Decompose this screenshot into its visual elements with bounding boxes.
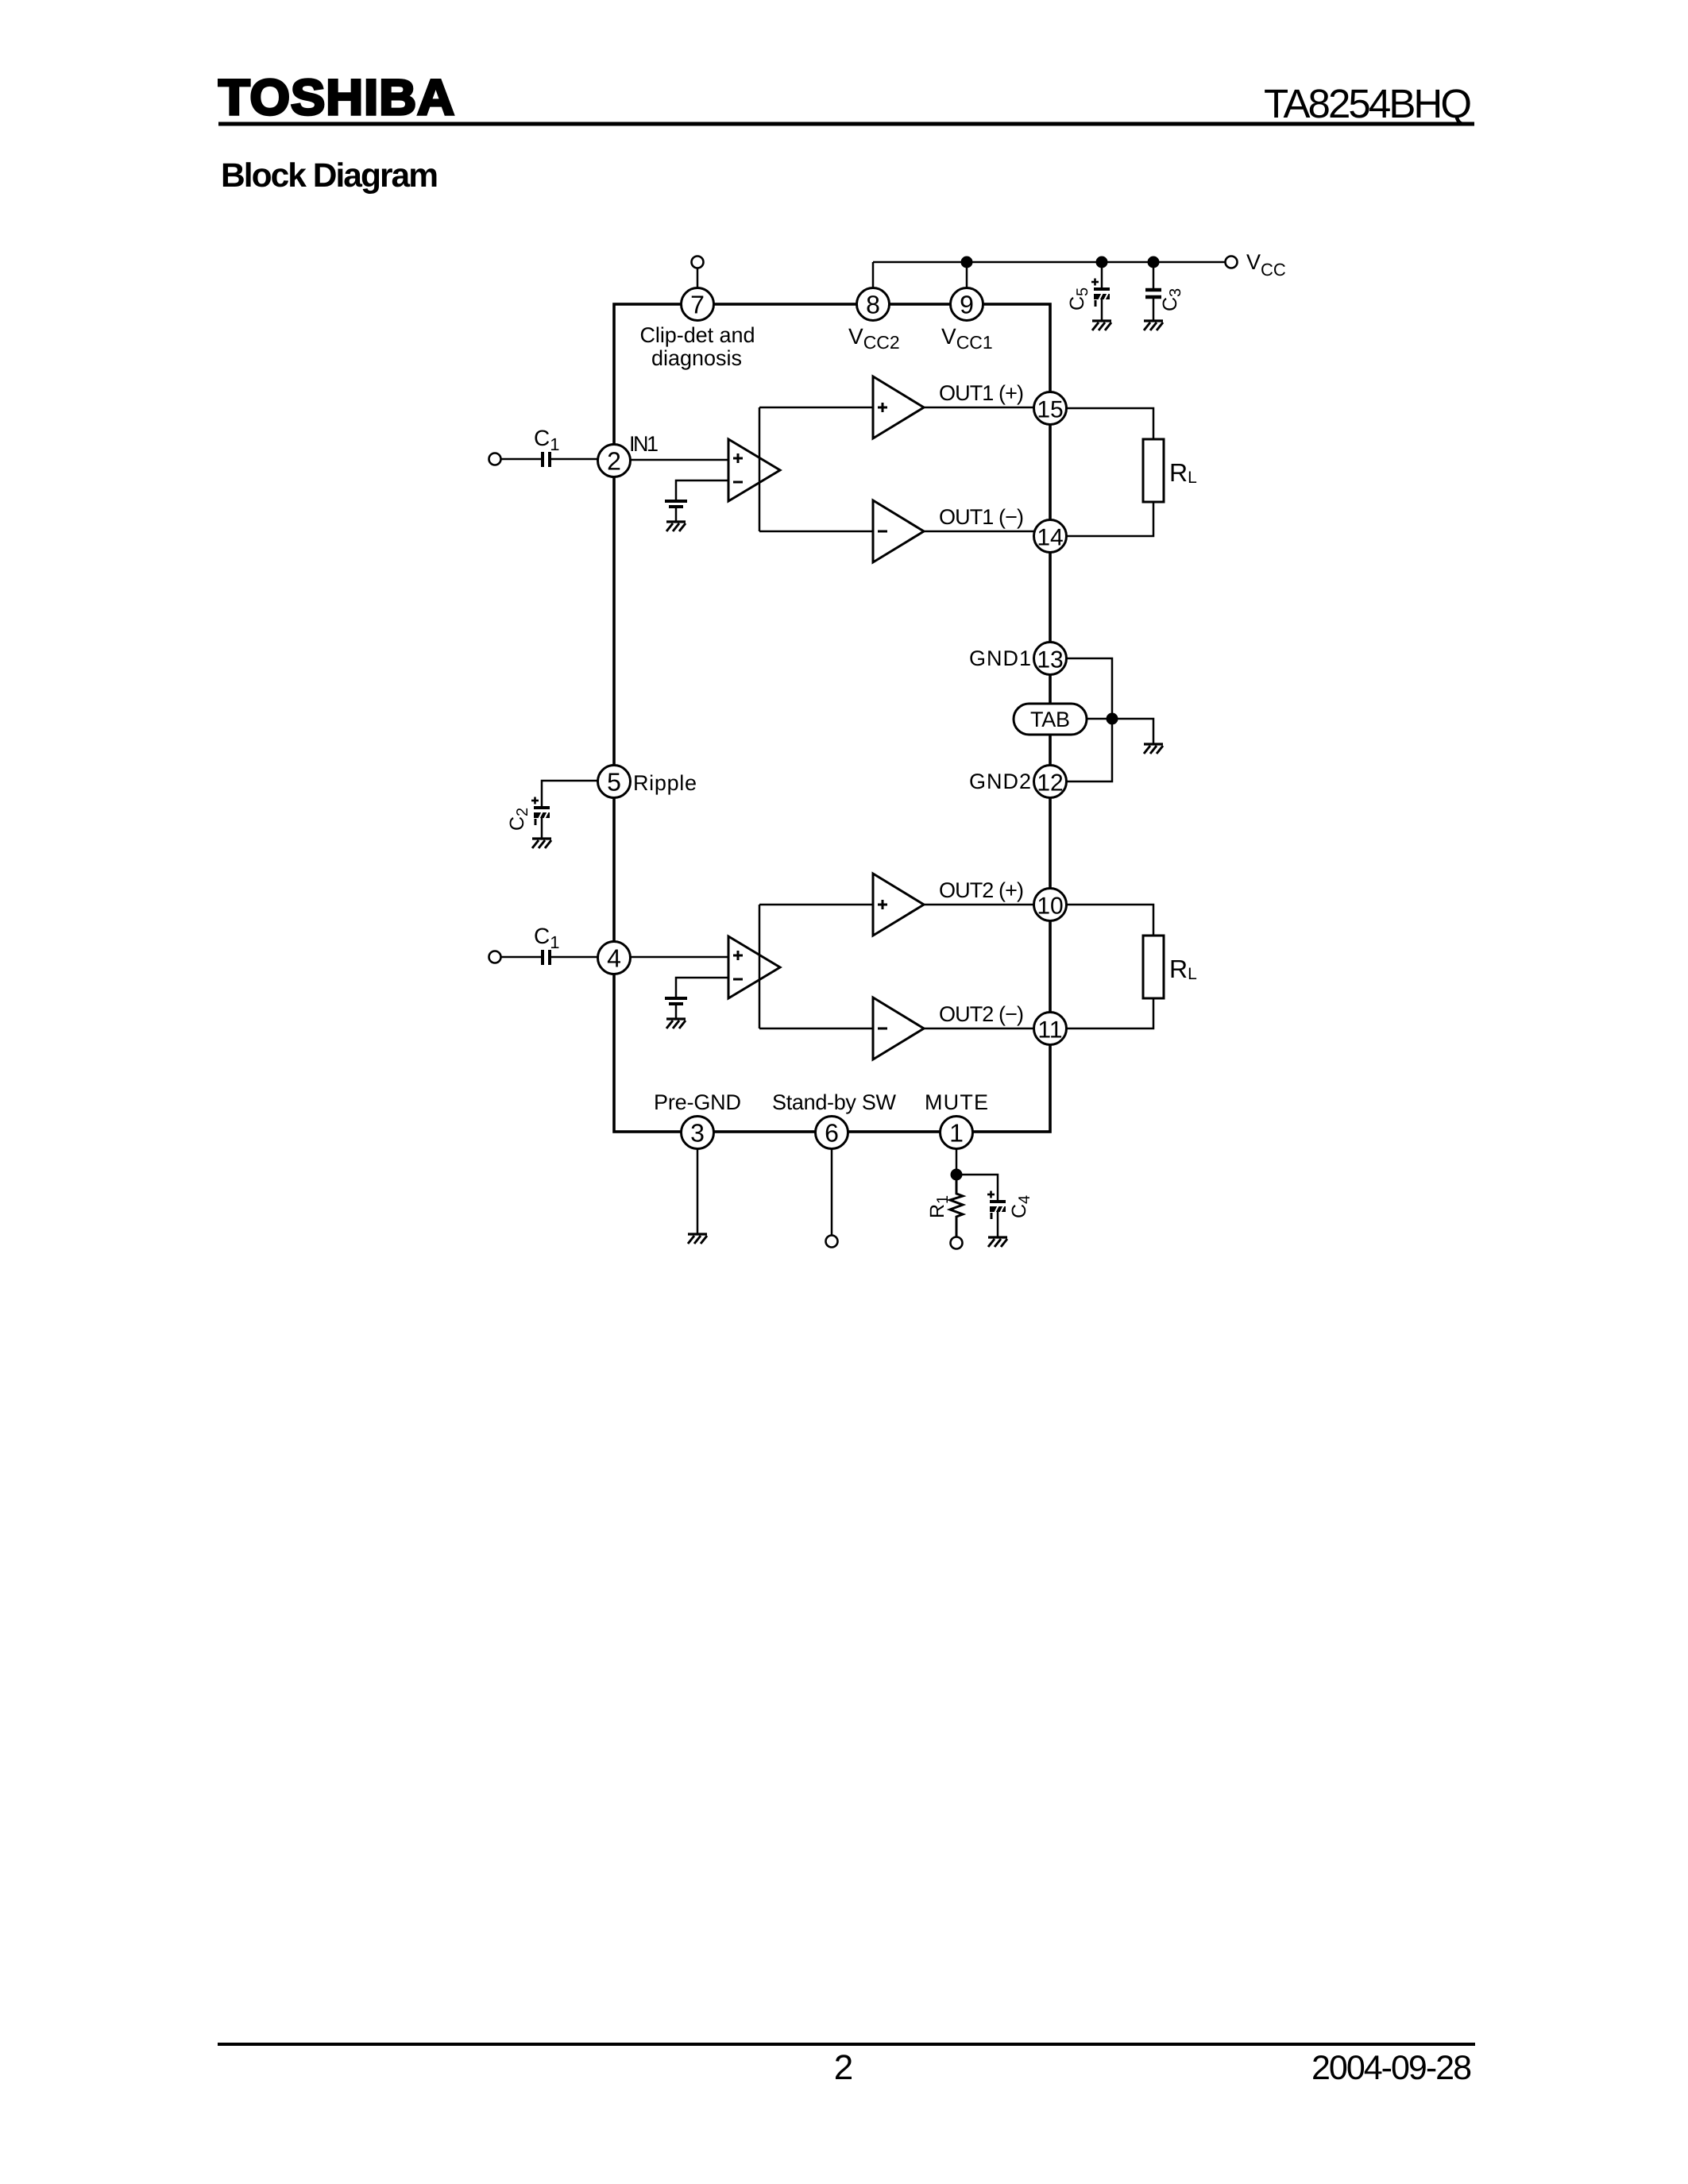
svg-text:GND1: GND1 (969, 646, 1031, 670)
ground (TAB) (1144, 744, 1163, 754)
capacitor C4 (polarized) (987, 1191, 1006, 1220)
pin 11 (OUT2-) (1034, 1013, 1067, 1045)
wire buffer2+ to pin10 (924, 904, 1034, 906)
wire C5 to ground (1101, 299, 1103, 321)
svg-text:OUT1 (−): OUT1 (−) (939, 505, 1024, 529)
wire input2 to C1 (500, 956, 541, 959)
terminal IN1 input (489, 453, 501, 465)
resistor RL (ch1) (1143, 439, 1164, 502)
wire C4 to ground (997, 1212, 999, 1237)
wire op-amp1 minus input (676, 480, 728, 500)
pin 14 (OUT1-) (1034, 520, 1067, 553)
power amp (OUT1 −) (873, 500, 924, 562)
TAB pad (1014, 704, 1087, 735)
svg-text:11: 11 (1037, 1017, 1062, 1044)
wire buffer1+ to pin15 (924, 407, 1034, 409)
svg-text:Clip-det and: Clip-det and (640, 323, 755, 347)
svg-text:TAB: TAB (1030, 708, 1070, 731)
junction MUTE node (951, 1169, 963, 1181)
resistor R1 (950, 1175, 963, 1237)
wire TAB to ground (1087, 719, 1153, 744)
ground (C4) (988, 1237, 1007, 1247)
svg-text:Ripple: Ripple (633, 771, 697, 795)
pin 9 (VCC1) (951, 288, 983, 321)
svg-text:7: 7 (690, 291, 705, 319)
wire op-amp2 minus input (676, 978, 728, 997)
wire input1 to C1 (500, 458, 541, 461)
svg-text:GND2: GND2 (969, 770, 1031, 793)
wire Vcc rail (873, 261, 1226, 264)
wire NF cap1 to ground (675, 508, 678, 522)
wire A1 output node (759, 407, 761, 531)
svg-text:3: 3 (690, 1119, 705, 1148)
capacitor (A1 NF) (665, 501, 687, 507)
ground (C2) (532, 839, 551, 848)
wire buffer2- to pin11 (924, 1028, 1034, 1030)
footer rule (218, 2043, 1475, 2046)
wire pin9 stub (966, 262, 968, 293)
wire to buffer1+ (759, 407, 873, 409)
svg-text:12: 12 (1037, 770, 1063, 797)
svg-text:OUT1 (+): OUT1 (+) (939, 381, 1024, 405)
svg-text:5: 5 (607, 768, 621, 797)
terminal VCC (1226, 257, 1238, 268)
wire pin4 to op-amp2 + (631, 956, 729, 959)
wire C2 to ground (541, 818, 543, 839)
capacitor (A2 NF) (665, 998, 687, 1004)
junction rail-pin9 (961, 257, 973, 268)
ground (A1 NF) (666, 522, 686, 531)
op-amp A1 (ch1 input amp) (728, 439, 780, 501)
terminal clip-det (692, 257, 704, 268)
svg-text:13: 13 (1037, 647, 1063, 673)
svg-text:1: 1 (949, 1119, 964, 1148)
svg-text:TA8254BHQ: TA8254BHQ (1264, 81, 1472, 126)
ground (Pre-GND) (688, 1234, 707, 1244)
wire C1 to pin4 (551, 956, 598, 959)
svg-text:15: 15 (1037, 397, 1063, 423)
wire pin15 to RL1 (1067, 408, 1154, 439)
wire C3 to ground (1153, 297, 1155, 321)
capacitor C1 (ch2, series) (543, 950, 550, 965)
svg-text:OUT2 (+): OUT2 (+) (939, 878, 1024, 902)
wire RL1 to pin14 (1067, 502, 1154, 536)
terminal MUTE ref (951, 1237, 963, 1249)
junction rail-C3 (1148, 257, 1160, 268)
junction rail-C5 (1096, 257, 1108, 268)
pin 2 (IN1) (598, 445, 631, 477)
header rule (218, 122, 1474, 126)
svg-text:MUTE: MUTE (925, 1090, 988, 1114)
svg-text:Stand-by SW: Stand-by SW (772, 1090, 897, 1114)
power amp (OUT2 −) (873, 997, 924, 1059)
wire C5 stub (1101, 262, 1103, 289)
wire pin8 stub to Vcc rail (872, 262, 875, 293)
junction TAB-gnd (1107, 713, 1118, 725)
wire pin5 to C2 (542, 781, 598, 808)
power amp (OUT2 +) (873, 874, 924, 936)
wire pin7 stub (697, 268, 699, 293)
pin 12 (GND2) (1034, 766, 1067, 798)
wire pin2 to op-amp1 + (631, 459, 729, 461)
ground (A2 NF) (666, 1019, 686, 1028)
capacitor C3 (1145, 290, 1161, 297)
svg-text:OUT2 (−): OUT2 (−) (939, 1002, 1024, 1026)
svg-text:8: 8 (866, 291, 880, 319)
terminal IN2 input (489, 951, 501, 963)
capacitor C1 (ch1, series) (543, 452, 550, 467)
svg-text:2004-09-28: 2004-09-28 (1311, 2049, 1472, 2087)
svg-text:TOSHIBA: TOSHIBA (218, 70, 455, 125)
svg-text:14: 14 (1037, 525, 1063, 551)
terminal Stand-by SW (826, 1236, 838, 1248)
wire buffer1- to pin14 (924, 531, 1034, 533)
pin 6 (Stand-by) (816, 1117, 848, 1149)
svg-text:2: 2 (834, 2048, 853, 2087)
wire NF cap2 to ground (675, 1005, 678, 1019)
svg-text:IN1: IN1 (629, 432, 659, 456)
IC body outline TA8254BHQ (614, 304, 1050, 1132)
pin 1 (MUTE) (941, 1117, 973, 1149)
capacitor C5 (polarized) (1091, 279, 1110, 307)
svg-text:2: 2 (607, 447, 621, 476)
wire pin3 to ground (697, 1149, 699, 1235)
wire to buffer1- (759, 531, 873, 533)
wire C3 stub (1153, 262, 1155, 290)
capacitor C2 (polarized) (531, 797, 550, 826)
svg-text:10: 10 (1037, 893, 1063, 920)
pin 8 (VCC2) (857, 288, 890, 321)
svg-text:4: 4 (607, 944, 621, 973)
wire to buffer2+ (759, 904, 873, 906)
pin 5 (Ripple) (598, 766, 631, 798)
pin 15 (OUT1+) (1034, 392, 1067, 425)
svg-text:Block Diagram: Block Diagram (221, 157, 438, 195)
wire to buffer2- (759, 1028, 873, 1030)
wire pin6 to terminal (831, 1149, 833, 1237)
pin 4 (IN2) (598, 942, 631, 974)
svg-text:6: 6 (825, 1119, 839, 1148)
svg-text:Pre-GND: Pre-GND (654, 1090, 741, 1114)
ground (C3) (1144, 321, 1163, 330)
power amp (OUT1 +) (873, 376, 924, 438)
resistor RL (ch2) (1143, 936, 1164, 998)
wire pin10 to RL2 (1067, 905, 1154, 936)
wire GND1-GND2 bracket (1067, 658, 1113, 781)
pin 13 (GND1) (1034, 642, 1067, 675)
pin 10 (OUT2+) (1034, 889, 1067, 921)
wire C1 to pin2 (551, 458, 598, 461)
svg-text:9: 9 (960, 291, 974, 319)
wire node to C4 (956, 1175, 998, 1202)
ground (C5) (1092, 321, 1111, 330)
pin 7 (Clip-det) (682, 288, 714, 321)
wire RL2 to pin11 (1067, 998, 1154, 1028)
op-amp A2 (ch2 input amp) (728, 936, 780, 998)
wire A2 output node (759, 905, 761, 1028)
svg-text:diagnosis: diagnosis (651, 346, 742, 370)
wire pin1 to node (956, 1149, 958, 1175)
pin 3 (Pre-GND) (682, 1117, 714, 1149)
